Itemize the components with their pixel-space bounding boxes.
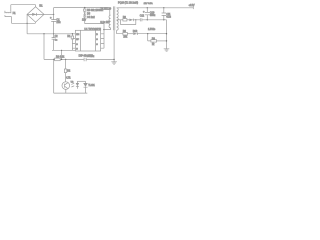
svg-text:C5 10u: C5 10u [87,56,95,58]
opto-coupler U2 transistor [62,82,70,90]
diode D5 (clamp) [84,11,86,12]
node sense low [166,40,167,41]
svg-text:1k: 1k [152,44,155,46]
node link/riser [61,50,62,51]
bridge rectifier B1 (diamond) [27,7,44,23]
resistor R1 [71,34,73,36]
wire IC left pin stubs [72,39,75,49]
svg-text:C4 2n2: C4 2n2 [87,16,95,19]
svg-text:D10: D10 [133,31,138,33]
wire R6-D10 [127,33,133,35]
wire bias feed [137,33,166,35]
bridge internal diode [27,13,44,15]
svg-text:4.7k: 4.7k [66,78,71,80]
wire secondary return row [117,19,123,21]
resistor R5 (clamp) [84,8,86,9]
wire return rail [142,19,167,21]
wire aux return [113,30,115,59]
svg-text:R1: R1 [67,35,71,38]
node src4 [113,59,114,60]
capacitor C11 [162,8,166,20]
wire DC+ riser and rail [54,8,110,15]
svg-text:C2: C2 [55,36,59,38]
wire left return drop [43,34,45,60]
svg-text:22u: 22u [56,21,61,24]
svg-text:0.1u: 0.1u [166,17,171,19]
wire opto emitter [65,89,67,93]
svg-text:+: + [143,11,145,14]
wire sense bus [166,20,168,49]
svg-text:F1: F1 [13,11,17,15]
svg-text:20k: 20k [123,37,128,39]
capacitor C5 [84,58,86,62]
svg-text:R3 6.2k: R3 6.2k [56,55,65,58]
wire source line [44,58,114,60]
wire lower link [52,49,75,51]
transformer T1 core [113,6,114,30]
wire drain bus [103,24,105,49]
svg-text:+12V: +12V [189,4,195,7]
capacitor C10 [145,8,150,20]
wire AC top [11,5,36,12]
inductor F1 (AC input coil) [5,11,11,13]
resistor R9 [123,19,127,21]
svg-text:U1 TNY266PN: U1 TNY266PN [84,28,101,31]
node B- left [43,33,44,34]
node rail C10 [147,7,148,8]
capacitor C2 [52,34,56,51]
wire secondary output rail [117,7,194,9]
svg-text:D: D [96,34,98,36]
shunt regulator U3 TL431 [83,81,87,83]
svg-text:680u: 680u [150,14,156,17]
op-amp U1 controller IC box [75,30,100,51]
wire comp drop [148,34,151,41]
resistor R8 [151,40,157,42]
resistor R6 [123,33,128,36]
svg-text:S: S [76,44,78,46]
node AC-/bridge junction [27,23,28,24]
node return C11 [163,19,164,20]
node snubber top [84,7,85,8]
diode D10 [133,32,137,35]
svg-text:+: + [50,17,52,20]
wire bottom rail [54,59,88,93]
node return C10 [147,19,148,20]
transformer T1 primary winding [109,15,111,28]
svg-text:R2: R2 [67,70,71,73]
svg-text:1.5Vdc: 1.5Vdc [148,29,156,31]
wire primary top lead [109,8,111,16]
wire B- rail [27,33,75,35]
node src3 [65,59,66,60]
wire LED to TL431 [77,80,85,82]
svg-text:1u: 1u [55,39,58,41]
node src2 [61,59,62,60]
resistor R3 [55,58,61,61]
wire IC right pin stubs [101,34,104,48]
wire opto drop [65,59,67,69]
node sense mid [166,33,167,34]
svg-text:PQ20 (T1 13t 2mH): PQ20 (T1 13t 2mH) [118,2,138,5]
svg-text:S: S [96,44,98,46]
wire AC return to bridge [12,21,36,24]
svg-text:EN: EN [76,34,79,36]
svg-text:B1: B1 [39,4,43,8]
wire snubber loop [121,20,141,25]
svg-text:12V 0.5A: 12V 0.5A [144,2,154,5]
svg-text:C11: C11 [166,14,171,16]
node rectifier out [135,19,136,20]
output terminal [192,7,194,10]
node src1 [53,59,54,60]
node R1 top [72,33,73,34]
node bias junction [147,33,148,34]
wire snubber bottom [85,23,104,25]
wire AC bottom terminal [5,15,12,23]
transformer T1 secondary winding [117,8,119,30]
svg-text:S: S [76,49,78,51]
wire bridge left vertex drop [26,14,28,33]
node rail C11 [163,7,164,8]
node drain/primary [103,29,104,30]
ground (primary) [111,59,117,64]
wire to opto [65,73,67,82]
opto LED D12 [76,81,79,89]
wire R8 out [157,40,167,42]
wire aux bottom lead [117,30,123,34]
svg-text:BP: BP [76,39,79,41]
wire bridge + output [44,13,54,15]
svg-text:1kV: 1kV [82,19,87,22]
diode D11 (output rectifier) [129,19,133,22]
capacitor C4 (clamp) [83,15,86,24]
opto arrows [71,83,74,87]
ground (secondary) [164,49,170,51]
wire riser to source line [61,50,63,59]
node C1 top [53,14,54,15]
resistor R2 [64,69,66,73]
capacitor C13 [140,18,142,21]
svg-text:C12: C12 [140,15,145,17]
capacitor C1 (bulk) [51,14,56,33]
svg-text:TL431: TL431 [88,85,95,87]
wire primary bottom lead [104,28,111,30]
svg-text:S: S [96,39,98,41]
node C1 bottom [53,33,54,34]
